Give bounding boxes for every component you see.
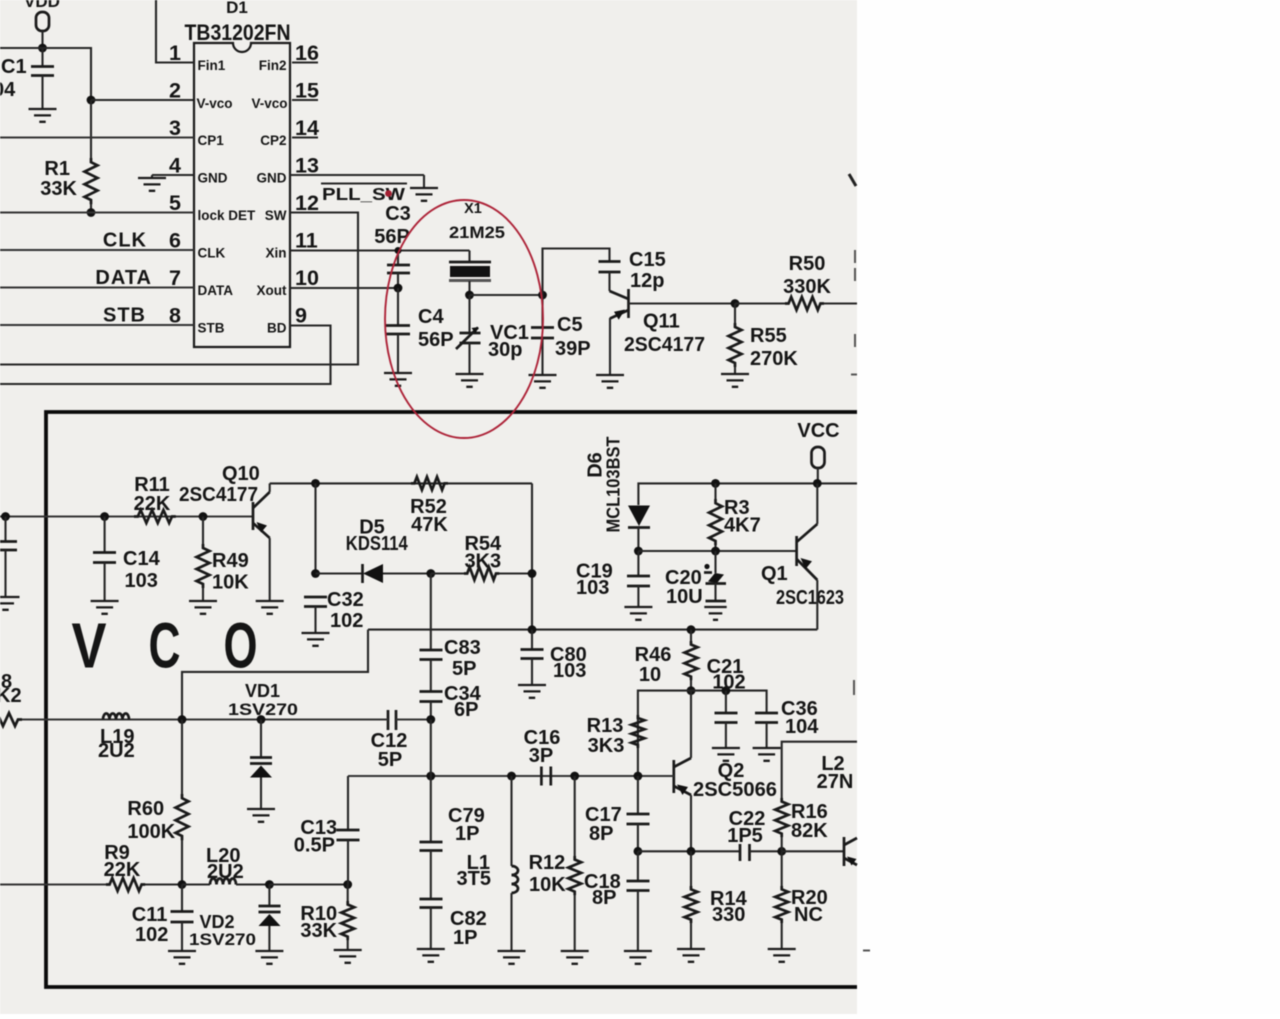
svg-text:5: 5 — [169, 191, 181, 215]
wire C22 to R16 — [750, 850, 782, 852]
svg-text:21M25: 21M25 — [449, 224, 505, 242]
wire pin6 CLK — [0, 249, 194, 251]
svg-text:TB31202FN: TB31202FN — [185, 20, 291, 45]
svg-text:V: V — [72, 610, 107, 682]
capacitor C22 — [727, 808, 765, 861]
wire VDD rail — [0, 48, 91, 100]
svg-text:8P: 8P — [592, 887, 616, 909]
svg-text:C15: C15 — [629, 249, 666, 271]
svg-text:33K: 33K — [40, 178, 77, 200]
transistor Q11 2SC4177 — [610, 289, 736, 374]
varactor VD2 1SV270 — [189, 885, 281, 951]
svg-text:2U2: 2U2 — [98, 740, 135, 762]
wire C83 drop — [430, 574, 432, 651]
resistor R50 — [783, 253, 831, 310]
capacitor C32 — [304, 589, 364, 632]
capacitor C15 — [599, 249, 666, 292]
transistor Q1 2SC1623 — [761, 483, 844, 629]
resistor R10 — [300, 885, 354, 950]
svg-text:VD2: VD2 — [200, 912, 235, 932]
svg-text:330: 330 — [712, 904, 745, 926]
ground C20 — [704, 607, 726, 620]
svg-text:Q10: Q10 — [222, 463, 260, 485]
wire pin12 SW return — [0, 213, 358, 365]
node R3 bottom junction — [711, 547, 720, 556]
resistor R60 — [127, 720, 188, 885]
svg-text:Fin1: Fin1 — [198, 58, 226, 73]
svg-text:KDS114: KDS114 — [346, 533, 409, 555]
ground C80 — [518, 685, 546, 698]
capacitor C17 — [585, 776, 650, 851]
svg-text:102: 102 — [135, 924, 168, 946]
wire Q10 collector row — [270, 482, 532, 484]
resistor R49 — [197, 517, 250, 601]
svg-text:Q11: Q11 — [643, 311, 680, 333]
ground C18 — [624, 951, 652, 964]
ground C14 — [91, 601, 119, 614]
capacitor C36 — [755, 698, 819, 747]
svg-text:8P: 8P — [589, 823, 613, 845]
node R46 bottom junction — [687, 686, 696, 695]
svg-text:102: 102 — [712, 672, 745, 694]
resistor R12 — [529, 776, 582, 950]
svg-text:7: 7 — [169, 266, 181, 290]
node C12/C34 junction — [426, 715, 435, 724]
ground C4 — [384, 373, 412, 386]
wire pin4 — [152, 174, 194, 176]
node C80 top junction — [528, 625, 537, 634]
svg-text:1P: 1P — [453, 927, 477, 949]
wire Q11 base to R50 — [735, 302, 789, 304]
node row R13 junction — [634, 772, 643, 781]
svg-text:47K: 47K — [411, 514, 448, 536]
power VDD — [24, 0, 60, 48]
wire R50 to edge — [824, 302, 857, 304]
ground VD1 — [247, 809, 275, 822]
svg-text:VCC: VCC — [797, 420, 839, 442]
svg-text:VDD: VDD — [24, 0, 60, 11]
wire pin9 BD return — [0, 326, 331, 385]
annotation red dot — [385, 190, 392, 197]
node C32 top junction — [311, 479, 320, 488]
node C5 junction — [538, 291, 547, 300]
capacitor C82 — [420, 899, 487, 949]
svg-text:2: 2 — [169, 79, 181, 103]
IC D1 TB31202FN body — [185, 0, 291, 347]
inductor L19 — [98, 714, 135, 763]
svg-text:13: 13 — [295, 154, 319, 178]
svg-text:BD: BD — [267, 321, 287, 336]
transistor Q10 2SC4177 — [179, 463, 270, 600]
capacitor C14 — [93, 517, 161, 601]
svg-text:10: 10 — [295, 266, 319, 290]
wire pin2 — [91, 99, 194, 101]
transistor Q2 2SC5066 — [674, 691, 777, 852]
svg-text:C32: C32 — [327, 589, 364, 611]
capacitor C80 — [521, 630, 587, 684]
inductor L1 — [457, 776, 518, 950]
resistor R9 — [104, 842, 146, 891]
ground C82 — [417, 949, 445, 962]
node C14 junction — [100, 512, 109, 521]
wire pin10 Xout — [290, 287, 398, 289]
svg-text:STB: STB — [198, 321, 225, 336]
resistor R13 — [587, 715, 645, 757]
resistor R54 — [431, 533, 532, 580]
wire L2 row — [782, 742, 857, 800]
wire pin5 lock DET — [0, 212, 194, 214]
svg-text:1P5: 1P5 — [727, 825, 763, 847]
wire R3 row — [638, 550, 796, 552]
wire C32 drop — [314, 483, 316, 573]
svg-text:100K: 100K — [127, 821, 175, 843]
svg-text:56P: 56P — [418, 329, 454, 351]
node D6/C19 junction — [634, 547, 643, 556]
varactor VD1 1SV270 — [228, 681, 298, 808]
svg-text:R60: R60 — [127, 798, 164, 820]
svg-text:O: O — [224, 610, 258, 682]
svg-text:10: 10 — [639, 664, 661, 686]
node R3 top junction — [711, 479, 720, 488]
node VD1 junction — [257, 715, 266, 724]
svg-text:Xin: Xin — [265, 246, 286, 261]
edge dash marks — [851, 250, 857, 375]
node C3 top junction — [395, 247, 402, 254]
capacitor C18 — [584, 851, 650, 950]
svg-text:2SC1623: 2SC1623 — [776, 587, 844, 609]
svg-text:C11: C11 — [132, 904, 168, 926]
svg-text:3T5: 3T5 — [457, 868, 491, 890]
capacitor C21 — [707, 656, 746, 747]
wire mid row jog — [182, 630, 368, 719]
node pin2 junction — [87, 96, 96, 105]
wire R9 to R60 — [145, 883, 182, 885]
ground pin13 — [410, 175, 438, 201]
svg-text:103: 103 — [553, 660, 586, 682]
svg-text:2SC5066: 2SC5066 — [693, 779, 777, 801]
svg-text:5P: 5P — [378, 749, 402, 771]
node R16 bottom junction — [777, 847, 786, 856]
wire D6 top — [638, 483, 857, 505]
wire C22 row — [638, 850, 739, 852]
svg-text:2SC4177: 2SC4177 — [624, 334, 705, 356]
svg-text:Q1: Q1 — [761, 563, 788, 585]
svg-text:3: 3 — [169, 116, 181, 140]
svg-text:DATA: DATA — [198, 283, 234, 298]
VCO box frame — [46, 412, 857, 987]
label L2 27N — [817, 753, 854, 793]
svg-text:1SV270: 1SV270 — [228, 700, 298, 719]
svg-text:3P: 3P — [529, 745, 553, 767]
svg-text:10U: 10U — [666, 586, 703, 608]
svg-text:39P: 39P — [555, 338, 591, 360]
capacitor C16 — [524, 727, 561, 786]
capacitor C12 — [371, 710, 408, 771]
svg-text:1SV270: 1SV270 — [189, 930, 256, 949]
svg-text:R1: R1 — [44, 158, 70, 180]
svg-text:30p: 30p — [488, 339, 522, 361]
resistor R20 — [775, 851, 828, 948]
net label PLL_SW — [321, 184, 407, 205]
wire R9 row — [0, 884, 110, 886]
capacitor C11 — [132, 885, 194, 951]
resistor R14 — [685, 851, 748, 948]
svg-text:C1: C1 — [1, 56, 27, 78]
svg-text:R55: R55 — [750, 325, 787, 347]
capacitor C3 — [374, 203, 411, 288]
node R54 right junction — [528, 569, 537, 578]
wire X1 to C5 — [470, 294, 543, 296]
ground VD2 — [255, 951, 283, 964]
ground C5 — [529, 375, 557, 388]
node VDD junction — [38, 44, 47, 53]
wire R11 row — [0, 516, 253, 518]
svg-text:C14: C14 — [123, 548, 161, 570]
svg-text:16: 16 — [295, 41, 319, 65]
node C21 top junction — [722, 686, 731, 695]
svg-text:12: 12 — [295, 191, 319, 215]
svg-text:R46: R46 — [635, 644, 672, 666]
pin 15 stub — [292, 99, 318, 101]
ground L1 — [498, 951, 526, 964]
capacitor C79 — [420, 776, 485, 899]
node R54 left junction — [426, 569, 435, 578]
svg-text:9: 9 — [295, 304, 307, 328]
ground C36 — [753, 748, 781, 761]
node row L1 junction — [507, 772, 516, 781]
svg-text:1: 1 — [169, 41, 181, 65]
node Q2 emitter junction — [687, 847, 696, 856]
svg-text:1P: 1P — [455, 823, 479, 845]
svg-text:C: C — [149, 610, 181, 682]
svg-text:33K: 33K — [300, 920, 337, 942]
wire C21 row — [638, 691, 767, 776]
resistor R1 — [40, 158, 97, 213]
svg-text:CLK: CLK — [103, 230, 147, 252]
svg-text:4: 4 — [169, 154, 181, 178]
resistor R52 — [410, 477, 448, 536]
pin 14 stub — [292, 136, 318, 138]
resistor R16 — [775, 798, 828, 851]
svg-text:DATA: DATA — [95, 267, 152, 289]
ground R12 — [561, 951, 589, 964]
wire VCO mid row — [368, 629, 817, 631]
svg-text:SW: SW — [265, 208, 287, 223]
wire C13 drop — [347, 776, 349, 830]
label VCO — [72, 610, 258, 682]
resistor R46 — [635, 630, 698, 691]
svg-text:R49: R49 — [212, 550, 249, 572]
svg-text:R50: R50 — [789, 253, 826, 275]
wire R52 to R54 drop — [531, 483, 533, 629]
resistor R3 — [709, 483, 761, 551]
svg-text:11: 11 — [295, 229, 318, 253]
ground VC1 — [456, 374, 484, 387]
svg-text:102: 102 — [330, 610, 363, 632]
wire main row — [348, 775, 674, 777]
node D5 row left junction — [311, 569, 320, 578]
power VCC — [797, 420, 839, 483]
node left cap junction — [1, 512, 10, 521]
diode D6 MCL103BST — [585, 436, 651, 551]
pin 16 stub — [292, 61, 318, 63]
svg-text:D1: D1 — [226, 0, 248, 17]
svg-text:82K: 82K — [791, 820, 828, 842]
svg-text:5P: 5P — [452, 658, 476, 680]
ground R49 — [189, 601, 217, 614]
capacitor C83 — [420, 637, 481, 692]
ground pin4 — [138, 175, 166, 191]
ground C32 — [302, 633, 330, 646]
resistor R11 — [134, 474, 176, 523]
svg-text:Fin2: Fin2 — [259, 58, 287, 73]
svg-text:GND: GND — [198, 171, 228, 186]
capacitor C20 electrolytic — [665, 551, 726, 608]
wire pin1 — [156, 0, 194, 63]
node R10 junction — [343, 880, 352, 889]
node R46 top junction — [687, 625, 696, 634]
wire pin7 DATA — [0, 287, 194, 289]
transistor edge partial — [782, 837, 857, 866]
svg-text:103: 103 — [576, 577, 609, 599]
svg-text:15: 15 — [295, 79, 319, 103]
svg-text:R13: R13 — [587, 715, 624, 737]
annotation red ellipse — [385, 200, 543, 438]
node VCC junction — [813, 479, 822, 488]
svg-text:GND: GND — [257, 171, 287, 186]
ground C21 — [712, 748, 740, 761]
node R49 junction — [199, 512, 208, 521]
wire C5 to C15 — [543, 249, 610, 296]
node row C34 junction — [426, 772, 435, 781]
wire vcc-to-R1 — [90, 100, 92, 158]
svg-text:K2: K2 — [0, 685, 22, 707]
svg-text:Xout: Xout — [257, 283, 287, 298]
scan paper background — [0, 0, 857, 1014]
svg-text:NC: NC — [794, 904, 823, 926]
resistor R8 edge partial — [0, 671, 22, 726]
node C11 junction — [178, 880, 187, 889]
svg-text:04: 04 — [0, 79, 16, 101]
svg-text:0.5P: 0.5P — [294, 835, 335, 857]
ground Q10 emitter — [256, 601, 284, 614]
svg-text:V-vco: V-vco — [251, 96, 287, 111]
ground C19 — [624, 607, 652, 620]
svg-text:104: 104 — [785, 716, 819, 738]
diode D5 KDS114 — [316, 517, 431, 584]
svg-text:C4: C4 — [418, 306, 444, 328]
variable capacitor VC1 — [456, 295, 529, 373]
svg-text:lock DET: lock DET — [198, 208, 257, 223]
ground R20 — [768, 949, 796, 962]
svg-text:C5: C5 — [557, 314, 583, 336]
wire pin13 — [290, 174, 424, 176]
node pin5 junction — [87, 208, 96, 217]
svg-text:56P: 56P — [374, 226, 410, 248]
svg-text:12p: 12p — [630, 270, 664, 292]
partial VCC mark at edge — [849, 174, 856, 186]
capacitor C4 — [386, 288, 454, 372]
capacitor C13 — [294, 817, 360, 885]
svg-text:330K: 330K — [783, 276, 831, 298]
wire pin3 CP1 — [0, 137, 194, 139]
ground C1 — [29, 109, 57, 122]
svg-text:8: 8 — [169, 304, 181, 328]
capacitor edge (cut) — [0, 517, 17, 597]
ground R10 — [334, 950, 362, 963]
wire pin8 STB — [0, 324, 194, 326]
capacitor C19 — [576, 551, 650, 606]
svg-text:270K: 270K — [750, 348, 798, 370]
svg-text:6: 6 — [169, 229, 181, 253]
wire varactor row — [22, 719, 431, 721]
svg-text:CLK: CLK — [198, 246, 226, 261]
wire C34 to row drop — [430, 720, 432, 777]
svg-text:V-vco: V-vco — [197, 96, 233, 111]
svg-text:STB: STB — [103, 305, 146, 327]
svg-text:14: 14 — [295, 116, 319, 140]
wire VD2 to R10 — [269, 883, 347, 885]
svg-text:C83: C83 — [444, 637, 481, 659]
svg-text:27N: 27N — [817, 771, 854, 793]
svg-text:3K3: 3K3 — [588, 735, 625, 757]
node C17/C18 junction — [634, 847, 643, 856]
svg-text:VD1: VD1 — [245, 681, 280, 701]
ground Q11 emitter — [596, 375, 624, 388]
ground edge cap — [0, 597, 20, 610]
svg-text:MCL103BST: MCL103BST — [603, 436, 624, 533]
wire pin11 Xin — [290, 249, 470, 251]
ground R14 — [677, 949, 705, 962]
ground C11 — [168, 951, 196, 964]
edge dash marks lower — [854, 680, 870, 951]
node X1 bottom junction — [465, 291, 474, 300]
svg-text:CP1: CP1 — [198, 133, 225, 148]
node C3/C4 junction — [394, 284, 403, 293]
node R55 junction — [731, 299, 740, 308]
svg-text:X1: X1 — [464, 201, 482, 217]
node VD2 junction — [265, 880, 274, 889]
svg-text:10K: 10K — [529, 874, 566, 896]
svg-text:PLL_SW: PLL_SW — [322, 184, 406, 204]
svg-text:4K7: 4K7 — [724, 515, 761, 537]
svg-text:C3: C3 — [385, 203, 411, 225]
capacitor C34 — [420, 683, 482, 721]
svg-text:103: 103 — [125, 570, 158, 592]
crystal X1 — [449, 201, 505, 295]
capacitor C5 — [531, 295, 591, 374]
node row R12 junction — [570, 772, 579, 781]
svg-text:CP2: CP2 — [260, 133, 286, 148]
node R60 top junction — [178, 715, 187, 724]
capacitor C1 — [0, 48, 54, 108]
resistor R55 — [729, 304, 799, 374]
svg-text:2SC4177: 2SC4177 — [179, 484, 258, 506]
svg-text:6P: 6P — [454, 699, 478, 721]
svg-text:R12: R12 — [529, 852, 566, 874]
ground R55 — [721, 374, 749, 387]
svg-text:10K: 10K — [212, 572, 249, 594]
inductor L20 — [182, 845, 269, 885]
